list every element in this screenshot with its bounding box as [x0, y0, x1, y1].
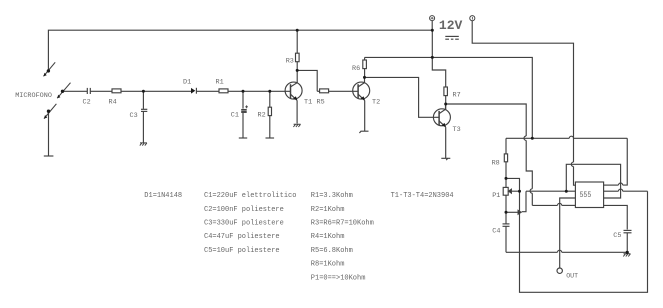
- svg-text:R8=1Kohm: R8=1Kohm: [311, 261, 345, 269]
- svg-text:R6: R6: [352, 65, 360, 73]
- svg-text:T1-T3-T4=2N3904: T1-T3-T4=2N3904: [391, 192, 454, 200]
- svg-text:C4: C4: [492, 227, 500, 235]
- svg-text:D1=1N4148: D1=1N4148: [144, 192, 182, 200]
- svg-text:C2=100nF poliestere: C2=100nF poliestere: [204, 206, 284, 214]
- svg-text:C4=47uF poliestere: C4=47uF poliestere: [204, 233, 280, 241]
- svg-text:R3: R3: [286, 58, 294, 66]
- svg-text:C1: C1: [231, 111, 239, 119]
- svg-text:R2: R2: [258, 111, 266, 119]
- svg-text:R5: R5: [317, 98, 325, 106]
- svg-text:R7: R7: [453, 92, 461, 100]
- svg-text:R4=1Kohm: R4=1Kohm: [311, 233, 345, 241]
- svg-text:R8: R8: [492, 159, 500, 167]
- svg-text:T1: T1: [304, 98, 312, 106]
- svg-text:555: 555: [580, 191, 592, 200]
- svg-text:C3: C3: [130, 112, 138, 120]
- svg-text:P1=0==>10Kohm: P1=0==>10Kohm: [311, 274, 366, 282]
- svg-text:T2: T2: [372, 98, 380, 106]
- svg-text:D1: D1: [183, 78, 191, 86]
- svg-text:R1: R1: [216, 78, 224, 86]
- svg-text:T3: T3: [453, 126, 461, 134]
- svg-text:OUT: OUT: [566, 273, 578, 280]
- svg-text:C1=220uF elettrolitico: C1=220uF elettrolitico: [204, 192, 296, 200]
- svg-text:MICROFONO: MICROFONO: [15, 92, 52, 100]
- svg-text:C5: C5: [613, 232, 621, 240]
- svg-text:12V: 12V: [439, 18, 463, 33]
- svg-text:R3=R6=R7=10Kohm: R3=R6=R7=10Kohm: [311, 220, 374, 228]
- svg-text:C3=330uF poliestere: C3=330uF poliestere: [204, 220, 284, 228]
- svg-text:R1=3.3Kohm: R1=3.3Kohm: [311, 192, 353, 200]
- svg-text:R4: R4: [109, 98, 117, 106]
- svg-text:R5=6.8Kohm: R5=6.8Kohm: [311, 247, 353, 255]
- svg-text:P1: P1: [492, 192, 500, 200]
- svg-text:C5=10uF poliestere: C5=10uF poliestere: [204, 247, 280, 255]
- svg-text:R2=1Kohm: R2=1Kohm: [311, 206, 345, 214]
- svg-text:C2: C2: [83, 98, 91, 106]
